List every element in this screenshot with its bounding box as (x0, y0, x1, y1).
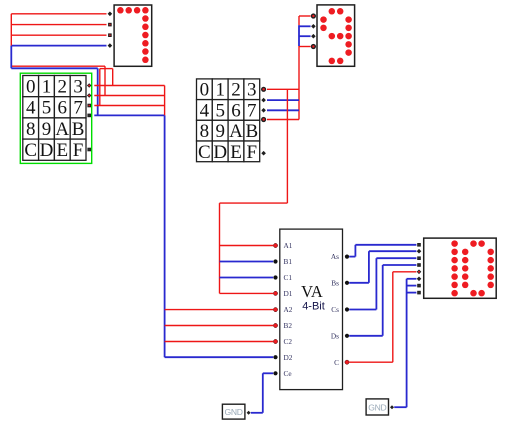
wire bundle vertical to D2 (blue) (164, 115, 166, 357)
wire Ds to U3 pin4 (blue horizontal) (383, 264, 417, 266)
svg-text:C: C (334, 358, 339, 367)
display U3 pin 4 (417, 263, 421, 267)
wire K2 pin4 row (red horizontal) (267, 119, 299, 121)
wire lower-left horizontal (red) (12, 65, 105, 67)
wire to U3 pin7 (blue horizontal) (407, 285, 417, 287)
wire riser to K1 row2 (red vertical) (104, 66, 106, 95)
wire U2 trunk vertical lower (red) (298, 46, 300, 120)
svg-text:VA: VA (301, 282, 323, 301)
svg-text:2: 2 (231, 80, 241, 101)
svg-text:4: 4 (200, 100, 210, 121)
wire to adder A1 (red horizontal) (220, 245, 274, 247)
ground GND1 pin (247, 411, 251, 415)
wire to adder D2 (blue horizontal) (165, 356, 274, 358)
svg-text:1: 1 (215, 80, 225, 101)
wire C riser (red vertical) (392, 272, 394, 362)
display U3 lit dots forming digits 10 (451, 240, 494, 296)
wire adder Ds stub (blue) (349, 335, 383, 337)
adder U4 pin B1 (273, 259, 277, 263)
wire riser to K1 row1 (red vertical) (112, 69, 114, 86)
wire to adder B2 (red horizontal) (165, 325, 274, 327)
display U2 pin 2 (bit2) (311, 24, 316, 29)
keypad K2 pin 5 (strobe) (261, 151, 266, 156)
wire GND2 to riser (blue horizontal) (394, 406, 406, 408)
svg-text:As: As (331, 252, 339, 261)
display U2 pin 4 (bit0) (312, 45, 316, 49)
adder U4 pin B2 (273, 323, 277, 327)
svg-text:A1: A1 (284, 241, 293, 250)
keypad K2 pin 3 (bit1) (261, 108, 266, 113)
wire to adder Ce (blue horizontal) (263, 372, 273, 374)
wire bit1 net to U1 pin3 (horizontal) (11, 34, 106, 36)
wire K1 pin4 row (blue horizontal) (94, 114, 164, 116)
svg-text:E: E (230, 142, 242, 163)
adder U4 pin C2 (273, 339, 277, 343)
svg-text:Bs: Bs (331, 278, 339, 287)
svg-text:9: 9 (215, 121, 225, 142)
wire U2 trunk vertical middle (blue) (298, 25, 300, 46)
wire left trunk vertical (blue) (10, 46, 12, 69)
display U1 pin 2 (bit2) (108, 23, 112, 27)
adder U4 pin Ce (273, 371, 277, 375)
4-bit adder U4 body (280, 229, 343, 390)
svg-text:8: 8 (200, 121, 210, 142)
wire U2 pin1 stub (red) (299, 15, 311, 17)
svg-text:1: 1 (42, 77, 52, 98)
wire to adder C1 (blue horizontal) (220, 277, 274, 279)
wire adder As stub (blue) (349, 256, 355, 258)
svg-text:7: 7 (73, 98, 83, 119)
display U3 pin 7 (417, 284, 421, 288)
svg-text:C2: C2 (284, 337, 293, 346)
svg-text:C: C (198, 142, 211, 163)
wire to adder B1 (blue horizontal) (220, 261, 274, 263)
svg-text:GND: GND (368, 402, 386, 412)
svg-text:9: 9 (42, 119, 52, 140)
keypad K1 pin 3 (bit1) (87, 104, 91, 108)
wire bit3 net to U1 pin1 (horizontal) (11, 13, 106, 15)
ground GND2 body (366, 399, 388, 415)
hex keypad K2 (197, 79, 260, 163)
adder U4 pin C1 (273, 275, 277, 279)
wire K1 pin1 row (red horizontal) (94, 85, 164, 87)
wire adder Bs stub (blue) (349, 282, 369, 284)
wire adder Cs stub (blue) (349, 309, 376, 311)
svg-text:F: F (73, 140, 84, 161)
svg-text:3: 3 (247, 80, 257, 101)
display U3 pin 1 (417, 243, 421, 247)
svg-text:B: B (72, 119, 85, 140)
wire to adder C2 (red horizontal) (165, 341, 274, 343)
wire bundle vertical (red) (164, 86, 166, 116)
wire trunk to D1 (red vertical) (219, 203, 221, 293)
wire riser to K1 row4 (blue vertical) (97, 68, 99, 115)
keypad K2 pin 1 (bit3) (262, 87, 266, 91)
display U2 pin 1 (bit3) (312, 14, 316, 18)
wire to U3 pin8 (blue horizontal) (407, 292, 417, 294)
ground GND1 body (222, 404, 245, 419)
svg-text:Ds: Ds (331, 331, 339, 340)
hex dot-matrix display U2 (shows 9) (317, 5, 355, 66)
svg-text:2: 2 (58, 77, 68, 98)
wire U2 trunk vertical upper (red) (298, 16, 300, 25)
wire jog horizontal above adder (red) (220, 202, 288, 204)
adder U4 output pin labels (331, 252, 339, 367)
svg-text:C1: C1 (284, 273, 293, 282)
keypad K2 pin 4 (bit0) (262, 118, 266, 122)
wire lower-left horizontal (blue) (11, 67, 97, 69)
display U3 pin 6 (417, 277, 422, 282)
svg-text:A2: A2 (284, 305, 293, 314)
display U3 pin 3 (417, 256, 421, 260)
wire U2 pin2 stub (blue) (299, 25, 311, 27)
wire GND1 to riser (blue horizontal) (251, 412, 263, 414)
keypad K1 pin 1 (bit3) (87, 83, 92, 88)
wire to adder A2 (red horizontal) (165, 309, 274, 311)
wire K2 pin2 row (blue horizontal) (267, 99, 299, 101)
adder U4 pin A2 (273, 308, 277, 312)
svg-text:5: 5 (42, 98, 52, 119)
adder U4 pin As (345, 255, 349, 259)
adder U4 input pin labels (284, 241, 293, 378)
adder U4 pin A1 (273, 243, 277, 247)
wire GND2 riser (blue vertical) (406, 279, 408, 407)
hex keypad K1 (selected, green outline) (20, 73, 91, 163)
wire As riser (blue vertical) (354, 245, 356, 257)
hex dot-matrix display U1 (shows 7) (114, 5, 152, 66)
wire riser to K1 row3 (red vertical) (99, 69, 101, 106)
svg-text:A: A (229, 121, 243, 142)
ground GND2 pin (390, 405, 394, 409)
wire adder C stub (red) (349, 361, 393, 363)
wire bit0 net to U1 pin4 (horizontal, blue) (11, 45, 106, 47)
svg-text:B: B (245, 121, 258, 142)
svg-text:4-Bit: 4-Bit (302, 301, 325, 313)
wire GND1 riser (blue vertical) (262, 373, 264, 413)
keypad K1 pin 5 (strobe) (87, 148, 91, 152)
svg-text:6: 6 (231, 100, 241, 121)
svg-text:D2: D2 (284, 353, 293, 362)
wire K2 pin1 row (red horizontal) (267, 88, 299, 90)
svg-text:5: 5 (215, 100, 225, 121)
wire Bs riser (blue vertical) (368, 251, 370, 283)
svg-text:7: 7 (247, 100, 257, 121)
adder U4 pin C (345, 360, 349, 364)
svg-text:D: D (40, 140, 54, 161)
svg-text:GND: GND (224, 407, 242, 417)
adder U4 pin Bs (345, 281, 349, 285)
wire U2 pin4 stub (red) (299, 46, 311, 48)
svg-text:6: 6 (58, 98, 68, 119)
wire As to U3 pin1 (blue horizontal) (355, 244, 416, 246)
svg-text:Ce: Ce (284, 369, 292, 378)
svg-text:3: 3 (73, 77, 83, 98)
keypad K2 pin 2 (bit2) (261, 98, 266, 103)
svg-text:C: C (24, 140, 37, 161)
svg-text:B2: B2 (284, 321, 293, 330)
wire to adder D1 (red horizontal) (220, 292, 274, 294)
display U2 lit dots forming digit 9 (320, 8, 352, 64)
adder U4 pin Cs (345, 307, 349, 311)
wire K1 pin3 row (red horizontal) (94, 105, 164, 107)
svg-text:A: A (55, 119, 69, 140)
wire K2 drop vertical (red) (286, 89, 288, 203)
svg-text:Cs: Cs (331, 305, 339, 314)
display U1 lit dots forming digit 7 (117, 7, 148, 63)
wire connector above K1 (red horizontal) (100, 68, 113, 70)
keypad K1 pin 2 (bit2) (87, 93, 92, 98)
wire left trunk vertical (red) (10, 14, 12, 46)
keypad K1 pin 4 (bit0) (87, 114, 91, 118)
wire bit2 net to U1 pin2 (horizontal) (11, 24, 106, 26)
display U1 pin 3 (bit1) (108, 33, 112, 37)
display U1 pin 4 (bit0) (108, 43, 113, 48)
svg-text:D1: D1 (284, 289, 293, 298)
wire Ds riser (blue vertical) (382, 265, 384, 336)
display U3 pin 2 (417, 249, 422, 254)
wire K1 pin2 row (red horizontal) (94, 95, 164, 97)
wire Cs riser (blue vertical) (375, 258, 377, 309)
wire Bs to U3 pin2 (blue horizontal) (369, 250, 417, 252)
svg-text:E: E (56, 140, 68, 161)
display U3 pin 5 (417, 270, 422, 275)
wire K2 pin3 row (blue horizontal) (267, 109, 299, 111)
adder U4 pin D2 (273, 355, 277, 359)
svg-text:D: D (213, 142, 227, 163)
wire C to U3 pin5 (red horizontal) (393, 271, 417, 273)
wire to U3 pin6 (blue horizontal) (407, 278, 417, 280)
svg-text:F: F (247, 142, 258, 163)
adder U4 pin Ds (345, 334, 349, 338)
two-digit dot-matrix display U3 (shows 10) (424, 238, 497, 298)
svg-text:4: 4 (26, 98, 36, 119)
display U2 pin 3 (bit1) (311, 34, 316, 39)
svg-text:0: 0 (200, 80, 210, 101)
svg-text:8: 8 (26, 119, 36, 140)
svg-text:0: 0 (26, 77, 36, 98)
svg-text:B1: B1 (284, 257, 293, 266)
wire U2 pin3 stub (blue) (299, 35, 311, 37)
wire Cs to U3 pin3 (blue horizontal) (376, 257, 416, 259)
display U1 pin 1 (bit3) (108, 12, 113, 17)
display U3 pin 8 (417, 291, 421, 295)
adder U4 pin D1 (273, 291, 277, 295)
